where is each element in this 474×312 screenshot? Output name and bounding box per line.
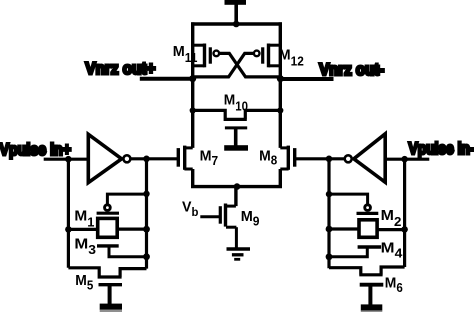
wire right inner vertical xyxy=(327,159,330,268)
wire cross-couple M12 gate to left node xyxy=(193,53,254,77)
wire inverter right output xyxy=(295,157,344,160)
node left inverter output junction xyxy=(143,156,150,163)
node right inner junction c xyxy=(326,253,333,260)
wire M7 source down xyxy=(191,169,194,187)
node left inner junction c xyxy=(143,253,150,260)
node output right xyxy=(277,75,284,82)
node right inner junction a xyxy=(326,191,332,197)
wire TG left lead xyxy=(68,228,97,231)
transmission gate channel box M2/M4 xyxy=(359,220,377,238)
transistor M6 (horizontal) xyxy=(329,267,405,275)
ground plate M5 xyxy=(100,304,122,310)
wire VDD stem xyxy=(234,4,238,24)
wire left branch vertical xyxy=(191,22,194,78)
wire M6 gate stem xyxy=(368,285,372,306)
wire left rail down xyxy=(191,79,194,148)
node M10 right junction xyxy=(277,107,283,113)
node left inner junction b xyxy=(143,226,150,233)
wire right branch vertical xyxy=(279,22,282,78)
ground symbol xyxy=(227,249,251,259)
transistor M3 (NMOS of transmission gate) xyxy=(97,246,147,257)
svg-text:Vpulse in+: Vpulse in+ xyxy=(0,140,71,159)
svg-text:Vnrz out+: Vnrz out+ xyxy=(85,59,155,78)
ground plate M6 xyxy=(361,304,383,310)
inverter right bubble xyxy=(345,155,352,162)
wire TG right lead xyxy=(119,228,147,231)
transmission gate channel box M1/M3 xyxy=(98,218,118,237)
svg-text:Vpulse in-: Vpulse in- xyxy=(409,139,474,158)
node input right junction xyxy=(401,156,408,163)
wire TG right-block right lead xyxy=(378,228,405,231)
inverter left bubble xyxy=(123,155,130,162)
wire right rail down xyxy=(279,79,282,148)
transistor M12 (PMOS) xyxy=(254,44,282,68)
wire TG right-block left lead xyxy=(329,227,358,230)
wire M8 source down xyxy=(279,169,282,187)
wire M2 gate to inner wire xyxy=(329,194,368,205)
wire cross-couple M11 gate to right node xyxy=(219,53,280,77)
node right bypass junction xyxy=(401,226,408,233)
node left inner junction a xyxy=(143,191,149,197)
node tail junction xyxy=(234,183,241,190)
transistor M5 gate xyxy=(99,283,123,286)
wire input left xyxy=(44,158,88,161)
node M10 left junction xyxy=(190,107,196,113)
wire tail rail xyxy=(191,185,282,188)
wire M1 gate to inner wire xyxy=(107,194,146,205)
wire left inner vertical xyxy=(145,159,148,269)
transistor M5 (horizontal) xyxy=(68,268,146,277)
wire input right xyxy=(385,158,429,161)
transistor M2 (PMOS of transmission gate) xyxy=(357,205,379,214)
wire top rail xyxy=(191,22,282,25)
node right inverter output junction xyxy=(326,156,333,163)
wire Vnrz out- rail xyxy=(280,77,333,81)
transistor M11 (PMOS) xyxy=(192,44,220,68)
node left bypass junction xyxy=(65,226,72,233)
transistor M6 gate xyxy=(360,283,384,287)
transistor M10 (horizontal, channel bracket) xyxy=(193,110,281,146)
transistor M1 (PMOS of transmission gate) xyxy=(97,205,119,213)
wire Vnrz out+ rail xyxy=(140,77,193,81)
wire M5 gate stem xyxy=(108,285,112,305)
capacitor plate below M10 xyxy=(224,145,248,151)
node input left junction xyxy=(65,156,72,163)
node top-center junction xyxy=(233,21,240,28)
transistor M7 (NMOS) xyxy=(178,146,192,170)
VDD supply bar xyxy=(225,0,247,5)
svg-text:Vnrz out-: Vnrz out- xyxy=(319,61,384,79)
transistor M8 (NMOS) xyxy=(280,146,294,170)
transistor M4 (NMOS of transmission gate) xyxy=(329,247,381,257)
node right inner junction b xyxy=(326,226,333,233)
wire inverter left output xyxy=(131,157,178,160)
wire left bypass vertical xyxy=(67,159,70,268)
transistor M9 (NMOS tail source) xyxy=(200,187,236,249)
inverter left (triangle) xyxy=(88,134,121,182)
wire right bypass vertical xyxy=(403,159,406,267)
node output left xyxy=(189,75,196,82)
inverter right (triangle) xyxy=(354,134,385,182)
